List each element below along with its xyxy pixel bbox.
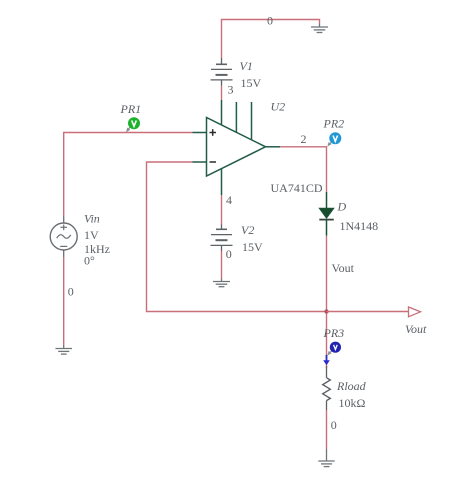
svg-text:1V: 1V	[84, 228, 99, 242]
svg-text:2: 2	[301, 132, 307, 146]
off-page connector Vout (arrow)	[409, 307, 421, 317]
svg-text:Vout: Vout	[332, 261, 355, 275]
battery V1	[211, 58, 233, 86]
svg-text:3: 3	[228, 83, 234, 97]
ground (left)	[56, 345, 73, 354]
probe PR2	[327, 132, 341, 146]
svg-text:10kΩ: 10kΩ	[339, 396, 366, 410]
svg-text:0°: 0°	[84, 254, 95, 268]
svg-text:1N4148: 1N4148	[340, 219, 379, 233]
svg-text:15V: 15V	[242, 240, 263, 254]
svg-text:V2: V2	[241, 223, 254, 237]
probe PR1	[126, 117, 140, 132]
wire V2 bottom to ground	[221, 251, 223, 279]
ground (top right)	[311, 24, 328, 33]
svg-text:PR1: PR1	[120, 102, 142, 116]
wire feedback: U2 - input to Vout node	[147, 162, 327, 312]
current direction arrow (PR3)	[323, 355, 330, 365]
svg-text:PR3: PR3	[323, 326, 345, 340]
svg-text:Vout: Vout	[405, 322, 427, 336]
wire input: Vin top to U2 + input	[64, 133, 193, 217]
svg-text:4: 4	[226, 193, 232, 207]
probe PR3	[327, 342, 341, 356]
battery V2	[211, 225, 233, 252]
wire net 2: U2 output to diode anode	[280, 147, 326, 192]
svg-text:V1: V1	[240, 59, 253, 73]
svg-text:Vin: Vin	[84, 212, 100, 226]
svg-text:Rload: Rload	[336, 379, 367, 393]
wire Vin bottom to left ground	[63, 257, 65, 345]
junction Vout node	[324, 309, 328, 313]
op-amp U2	[193, 100, 281, 195]
svg-text:D: D	[337, 200, 347, 214]
ground (bottom right)	[318, 449, 334, 467]
ground (below V2)	[213, 279, 230, 287]
wire Vout node to off-page connector	[327, 311, 409, 313]
svg-text:0: 0	[226, 247, 232, 261]
wire net 3: V1 to U2 V+ pin	[221, 86, 223, 101]
svg-text:0: 0	[331, 418, 337, 432]
svg-text:U2: U2	[271, 100, 286, 114]
diode D	[319, 192, 334, 236]
svg-text:PR2: PR2	[323, 117, 345, 131]
wire net 4: U2 V- pin to V2	[221, 195, 223, 225]
svg-text:UA741CD: UA741CD	[271, 181, 323, 195]
svg-text:15V: 15V	[241, 76, 262, 90]
source Vin	[50, 216, 77, 257]
wire net 0: battery V1 top to top-right ground	[222, 20, 320, 59]
svg-text:0: 0	[267, 14, 273, 28]
wire Rload to bottom ground	[326, 410, 328, 449]
svg-text:0: 0	[68, 285, 74, 299]
resistor Rload	[323, 366, 331, 410]
wire net Vout: diode cathode down to Rload	[326, 236, 328, 368]
